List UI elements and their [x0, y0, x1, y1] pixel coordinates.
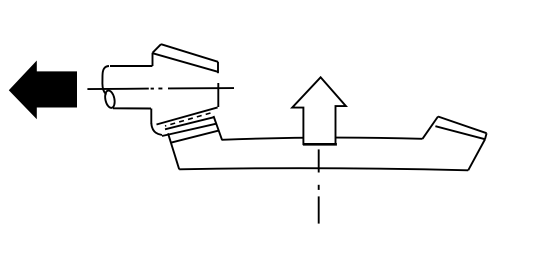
- cone head right edge: [217, 62, 219, 73]
- arm bottom edge: [179, 168, 468, 170]
- hook end cap: [485, 133, 487, 139]
- outlined up arrow: [292, 77, 346, 144]
- arm strip lower edge: [170, 131, 218, 143]
- hook inner fold edge: [435, 126, 485, 139]
- cylinder end-face small ellipse: [104, 90, 116, 109]
- cone head back top edge: [161, 44, 218, 62]
- arm front steep edge: [168, 133, 179, 169]
- flange lower edge: [165, 117, 214, 129]
- cylinder shaft top edge: [110, 65, 152, 67]
- cone head front top edge: [153, 53, 218, 71]
- vertical centerline (dash-dot): [318, 149, 320, 172]
- hook bend edge: [423, 117, 439, 139]
- hook top edge: [438, 117, 487, 134]
- flange hidden edge (dashed): [165, 113, 211, 126]
- cone head top-left cap: [153, 44, 162, 53]
- hook tip lower edge: [468, 140, 485, 171]
- arm strip upper edge: [162, 124, 217, 136]
- cylinder left silhouette arc: [102, 66, 109, 95]
- connector flange to arm top: [214, 116, 223, 140]
- cylinder shaft bottom edge: [113, 107, 151, 109]
- flange left rounded cap: [151, 123, 162, 135]
- step below cylinder (cone left edge lower): [150, 109, 152, 124]
- spindle axis centerline (horizontal dash-dot): [87, 88, 148, 91]
- solid left direction arrow: [9, 61, 77, 120]
- cone head left edge upper: [152, 53, 154, 66]
- flange top edge: [157, 107, 218, 124]
- up arrow base (thicker): [303, 143, 337, 146]
- arm top edge: [222, 138, 423, 140]
